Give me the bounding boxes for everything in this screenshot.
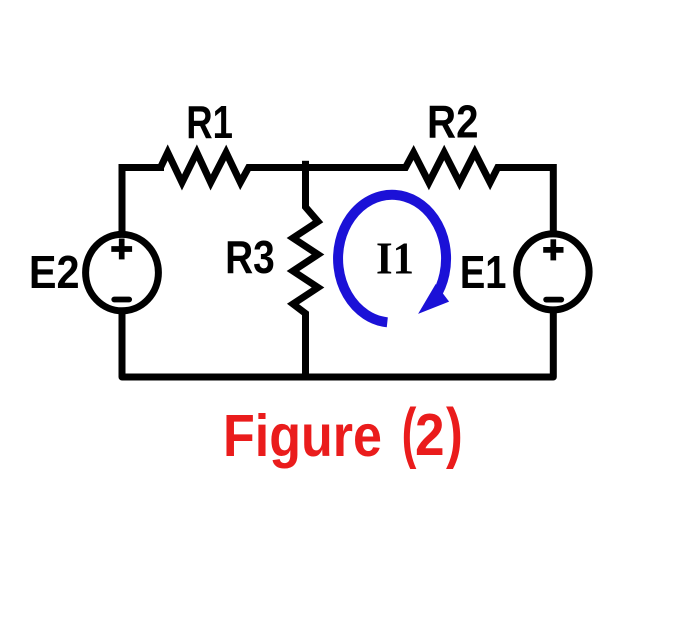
caption Figure (2)	[223, 394, 463, 470]
label R1	[186, 96, 233, 148]
label E2	[29, 246, 80, 298]
svg-text:2: 2	[415, 401, 445, 467]
svg-text:R3: R3	[225, 231, 275, 283]
label R2	[427, 96, 479, 148]
bottom wire with left and right vertical risers	[122, 308, 553, 377]
voltage source E2 plus sign	[111, 239, 132, 260]
voltage source E2 minus sign	[114, 297, 129, 303]
wire middle vertical lower segment	[302, 314, 309, 381]
current loop I1 arc	[338, 195, 446, 323]
label I1	[376, 233, 414, 284]
voltage source E1 plus sign	[543, 239, 563, 260]
svg-text:Figure: Figure	[223, 403, 382, 469]
resistor R1	[152, 153, 256, 183]
wire middle vertical upper segment	[302, 165, 309, 208]
svg-text:R1: R1	[186, 96, 233, 148]
current loop I1 arrowhead	[418, 284, 449, 314]
wire top-right segment and right vertical down to E1	[498, 168, 554, 238]
resistor R2	[398, 153, 505, 183]
voltage source E2 circle	[86, 234, 159, 310]
svg-text:E2: E2	[29, 246, 80, 298]
svg-text:): )	[446, 394, 463, 470]
label E1	[460, 246, 507, 298]
wire top-middle segment	[249, 164, 406, 171]
resistor R3	[293, 199, 318, 321]
svg-text:E1: E1	[460, 246, 507, 298]
wire top-left segment and left vertical down to E2	[122, 168, 164, 238]
label R3	[225, 231, 275, 283]
voltage source E1 circle	[517, 234, 589, 310]
node junction nub top of middle branch	[302, 161, 309, 170]
voltage source E1 minus sign	[546, 297, 561, 303]
svg-text:I1: I1	[376, 233, 414, 284]
svg-text:R2: R2	[427, 96, 479, 148]
